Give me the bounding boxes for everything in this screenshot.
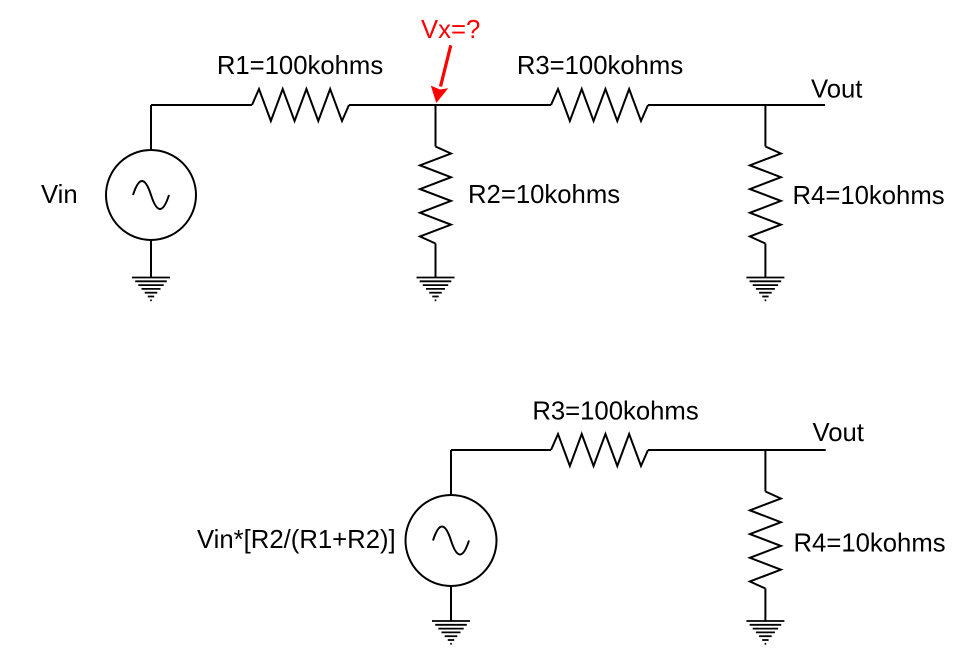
wire node Vx to R3 [436,104,552,106]
svg-text:Vin*[R2/(R1+R2)]: Vin*[R2/(R1+R2)] [197,526,396,554]
node Vx arrow [431,45,451,103]
svg-text:R1=100kohms: R1=100kohms [217,52,383,80]
svg-text:Vx=?: Vx=? [421,16,480,44]
wire bottom R3 to Vout end [648,449,826,451]
resistor R4 [750,147,781,244]
svg-text:R2=10kohms: R2=10kohms [468,181,620,209]
svg-text:R4=10kohms: R4=10kohms [793,182,945,210]
wire bottom source corner to R3 [451,449,551,451]
wire top-left horizontal from Vin to R1 [151,104,252,106]
wire R1 to node Vx [349,104,436,106]
wire vertical from corner down to Vin source [150,105,152,150]
ground under V2 [432,621,470,644]
svg-text:R3=100kohms: R3=100kohms [532,398,698,426]
voltage source V2 circle [406,495,497,586]
resistor R4 (bottom) [750,492,781,589]
wire Vout node down to R4 [764,105,766,147]
ground under R4 (bottom) [746,621,784,644]
svg-text:Vin: Vin [41,181,78,209]
wire R2 to ground [435,244,437,278]
resistor R3 (bottom) [551,434,648,466]
wire Vin source to ground [150,240,152,278]
voltage source V1 circle [106,150,196,240]
resistor R3 [551,89,648,121]
svg-text:Vout: Vout [811,76,862,104]
wire bottom Vout node down to R4 [764,450,766,492]
wire node Vx down to R2 [435,105,437,147]
ground under R4 [746,278,784,301]
svg-text:R3=100kohms: R3=100kohms [517,52,683,80]
wire R4 to ground [764,244,766,278]
voltage source V2 sine [433,527,469,555]
ground under R2 [417,278,455,301]
svg-text:R4=10kohms: R4=10kohms [794,530,946,558]
resistor R1 [252,89,349,121]
svg-text:Vout: Vout [813,419,864,447]
wire V2 to ground [450,586,452,621]
wire bottom vertical corner down to source [450,450,452,495]
wire R3 to Vout node and end [648,104,825,106]
voltage source V1 sine [133,181,169,209]
wire bottom R4 to ground [764,589,766,622]
ground under Vin [132,278,170,301]
resistor R2 [420,147,451,244]
